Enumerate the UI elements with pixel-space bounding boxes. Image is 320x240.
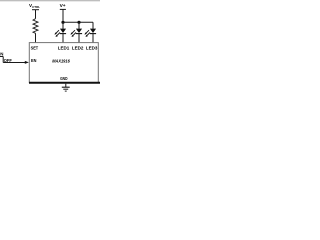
IC U1 MAX1916 box <box>29 43 98 83</box>
LED LED1 <box>55 22 67 42</box>
supply stub V+ <box>60 8 66 10</box>
svg-text:VCTRL: VCTRL <box>29 3 40 9</box>
arrow into EN <box>25 61 29 64</box>
LED LED2 <box>71 22 83 42</box>
wire anode bus <box>63 21 93 23</box>
LED LED3 <box>85 22 97 42</box>
svg-text:LED3: LED3 <box>86 46 98 52</box>
junction dot at V+/LED1 <box>61 21 64 24</box>
svg-text:LED2: LED2 <box>72 46 84 52</box>
ground rail (thick bottom edge) <box>29 82 100 84</box>
svg-text:V+: V+ <box>60 3 66 9</box>
svg-text:EN: EN <box>31 58 37 63</box>
ground symbol <box>62 87 70 91</box>
ON/OFF control waveform <box>0 51 25 63</box>
svg-text:LED1: LED1 <box>58 46 70 52</box>
wire resistor to SET pin <box>35 33 37 42</box>
wire GND pin to ground <box>65 84 67 88</box>
svg-text:SET: SET <box>31 46 39 52</box>
resistor RSET <box>33 19 38 34</box>
junction dot at LED2 branch <box>77 21 80 24</box>
wire V+ down to bus <box>62 9 64 22</box>
svg-text:ON: ON <box>0 51 3 56</box>
wire VCTRL to resistor <box>35 10 37 19</box>
svg-text:GND: GND <box>60 76 68 81</box>
page rule (top grey line) <box>0 0 100 2</box>
svg-text:MAX1916: MAX1916 <box>52 58 70 63</box>
supply stub VCTRL <box>32 9 39 11</box>
